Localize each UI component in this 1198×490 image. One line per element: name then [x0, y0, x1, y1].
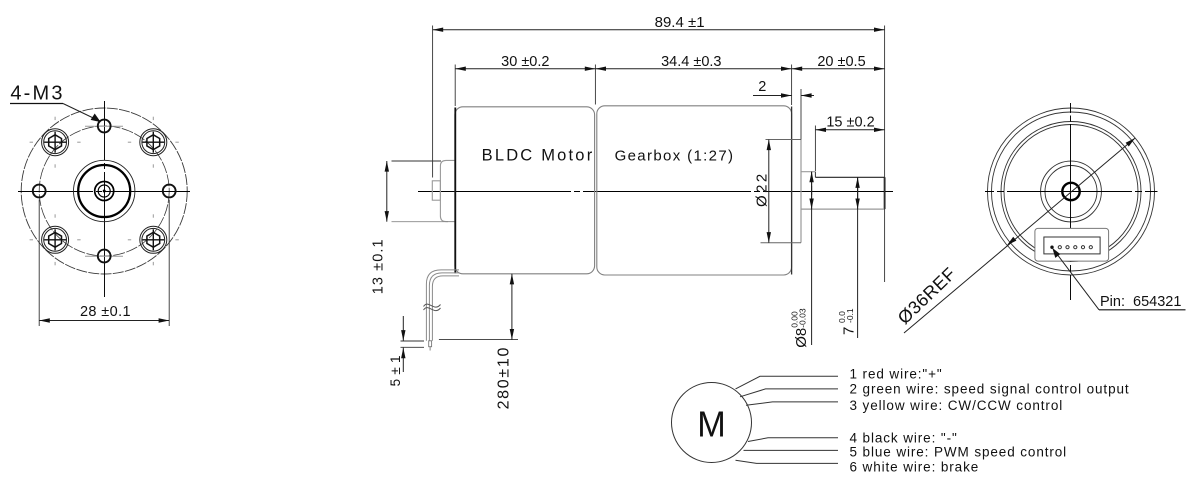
- svg-text:-0.1: -0.1: [845, 308, 855, 323]
- dim7 label: [837, 308, 858, 335]
- inner ring 2: [1004, 125, 1138, 259]
- svg-text:M: M: [697, 404, 726, 445]
- gearbox body: [597, 106, 792, 275]
- wire bundle: [426, 270, 459, 341]
- flange bottom / dia22 bottom ext: [761, 242, 802, 244]
- pin 6: [1050, 246, 1053, 249]
- main centerline: [418, 191, 893, 193]
- center dot: [103, 190, 106, 193]
- svg-text:4-M3: 4-M3: [10, 83, 64, 105]
- dia36 diagonal line: [904, 138, 1135, 333]
- svg-text:1 red wire:"+": 1 red wire:"+": [850, 366, 943, 381]
- motor outer circle: [21, 108, 187, 274]
- 4-M3 leader: [63, 104, 99, 121]
- rear v centerline: [1070, 103, 1072, 300]
- dim 30/34.4 shared ext: [594, 65, 596, 105]
- inner ring 1: [1001, 122, 1141, 262]
- svg-text:Ø22: Ø22: [754, 171, 771, 207]
- pin 2: [1081, 246, 1084, 249]
- dim 89.4 ext left: [432, 26, 434, 178]
- center boss outer ring: [74, 160, 135, 221]
- wire tip end: [429, 347, 431, 351]
- screw top-right: [128, 117, 179, 168]
- pin 4: [1066, 246, 1069, 249]
- dim 5 tick top: [401, 340, 425, 342]
- svg-text:2: 2: [758, 79, 766, 95]
- svg-text:20 ±0.5: 20 ±0.5: [817, 54, 865, 70]
- wire break mark: [424, 304, 441, 307]
- flange face: [800, 140, 802, 243]
- dim 20 line: [792, 68, 885, 70]
- 28 dim ext line left: [38, 200, 40, 327]
- M3 hole top: [98, 120, 111, 133]
- screw top-left: [30, 117, 81, 168]
- motor body: [455, 107, 595, 274]
- dim 15 line: [815, 129, 884, 131]
- hole tick bottom: [85, 255, 123, 257]
- pin 3: [1074, 246, 1077, 249]
- vertical centerline: [104, 101, 106, 297]
- wire 4: [748, 438, 838, 442]
- pin label underline: [1099, 309, 1186, 311]
- 4-M3 underline: [10, 103, 63, 105]
- dia8 dim line: [811, 172, 813, 345]
- wire 1: [736, 376, 839, 389]
- dia22 dim line: [768, 140, 770, 243]
- svg-text:-0.03: -0.03: [798, 308, 808, 328]
- dim 5 arrow top: [402, 316, 404, 341]
- dim 13 ext bottom: [392, 221, 449, 223]
- flange top / dia22 top ext: [766, 139, 802, 141]
- svg-text:30 ±0.2: 30 ±0.2: [501, 54, 549, 70]
- dia36 arrow upper: [1126, 138, 1135, 146]
- svg-text:Ø8: Ø8: [793, 328, 810, 348]
- dim7 arrows: [857, 177, 859, 199]
- dim 2 ext (flange face): [800, 89, 802, 140]
- dia8 label: [790, 308, 811, 348]
- svg-text:Pin: 654321: Pin: 654321: [1100, 294, 1181, 310]
- svg-text:280±10: 280±10: [496, 346, 513, 409]
- dim 5 arrow bottom: [402, 348, 404, 372]
- connector body: [1035, 228, 1109, 261]
- svg-text:13 ±0.1: 13 ±0.1: [371, 238, 387, 294]
- svg-text:4 black wire: "-": 4 black wire: "-": [850, 431, 958, 446]
- motor circle: [672, 383, 752, 463]
- shaft inner ring: [98, 185, 110, 197]
- pin leader arrow: [1052, 248, 1060, 258]
- dim 15 ext left: [814, 126, 816, 172]
- screw bottom-left: [30, 214, 81, 265]
- 4-M3 arrow: [91, 114, 101, 123]
- dia8 arrows: [811, 172, 813, 195]
- svg-text:BLDC Motor: BLDC Motor: [482, 147, 595, 165]
- svg-text:5±1: 5±1: [388, 351, 403, 386]
- dim 13 line: [386, 161, 388, 222]
- 28 dim line: [39, 320, 169, 322]
- outer circle 2: [992, 112, 1151, 271]
- horizontal centerline: [18, 191, 190, 193]
- boss ring outer: [1041, 161, 1102, 222]
- wire 6: [736, 460, 839, 463]
- dim7 dim line: [857, 177, 859, 338]
- dim 280 line: [511, 274, 513, 340]
- shaft bottom: [801, 208, 885, 210]
- M3 hole right: [163, 185, 176, 198]
- motor left edge: [454, 108, 456, 274]
- svg-text:34.4 ±0.3: 34.4 ±0.3: [661, 54, 721, 70]
- dia36 arrow lower: [1007, 237, 1016, 245]
- bolt circle (dash-dot): [39, 126, 169, 256]
- connector inner: [1044, 237, 1100, 254]
- dim 30 ext left: [454, 65, 456, 107]
- center boss thick ring: [78, 165, 130, 217]
- rear shaft bump: [432, 181, 440, 200]
- boss ring inner: [1045, 166, 1097, 218]
- svg-text:7: 7: [841, 327, 858, 335]
- rear h centerline: [985, 191, 1158, 193]
- dim 280 bottom ext: [439, 339, 518, 341]
- dim 89.4 line: [433, 29, 885, 31]
- shaft end: [884, 177, 886, 209]
- svg-text:2 green wire: speed signal con: 2 green wire: speed signal control outpu…: [850, 382, 1130, 397]
- shaft ring: [95, 182, 114, 201]
- M3 hole left: [33, 185, 46, 198]
- hole tick top: [85, 125, 123, 127]
- pin 1: [1089, 246, 1092, 249]
- pin 5: [1058, 246, 1061, 249]
- dim 30 line: [455, 68, 595, 70]
- screw bottom-right: [128, 214, 179, 265]
- 28 dim ext line right: [168, 200, 170, 327]
- dim 2 right line w arrow: [801, 95, 814, 97]
- dim 34.4 line: [595, 68, 791, 70]
- gearbox right edge: [791, 107, 793, 275]
- dim 2 left line w arrow: [753, 95, 792, 97]
- wire tip: [429, 341, 432, 347]
- dim 5 tick bottom: [401, 346, 425, 348]
- wire 5: [744, 449, 839, 451]
- center shaft circle: [1062, 183, 1079, 200]
- svg-text:6 white wire: brake: 6 white wire: brake: [850, 460, 980, 475]
- wire 3: [746, 402, 838, 405]
- svg-text:89.4 ±1: 89.4 ±1: [655, 14, 705, 31]
- dim 89.4 ext right: [884, 26, 886, 283]
- svg-text:Gearbox (1:27): Gearbox (1:27): [615, 148, 735, 165]
- dim 20 ext (gearbox face): [791, 65, 793, 106]
- rear cap: [440, 160, 455, 221]
- svg-text:3 yellow wire: CW/CCW control: 3 yellow wire: CW/CCW control: [850, 398, 1064, 413]
- shaft shoulder top: [801, 171, 815, 173]
- shaft flat top: [815, 176, 884, 178]
- svg-text:15 ±0.2: 15 ±0.2: [826, 115, 874, 131]
- wire 2: [740, 389, 838, 397]
- outer circle: [988, 108, 1155, 275]
- svg-text:28 ±0.1: 28 ±0.1: [80, 304, 131, 320]
- M3 hole bottom: [98, 250, 111, 263]
- pin leader line: [1055, 251, 1100, 310]
- dim 13 ext top: [392, 160, 442, 162]
- shaft step: [814, 172, 816, 178]
- svg-text:5 blue wire: PWM speed control: 5 blue wire: PWM speed control: [850, 445, 1068, 460]
